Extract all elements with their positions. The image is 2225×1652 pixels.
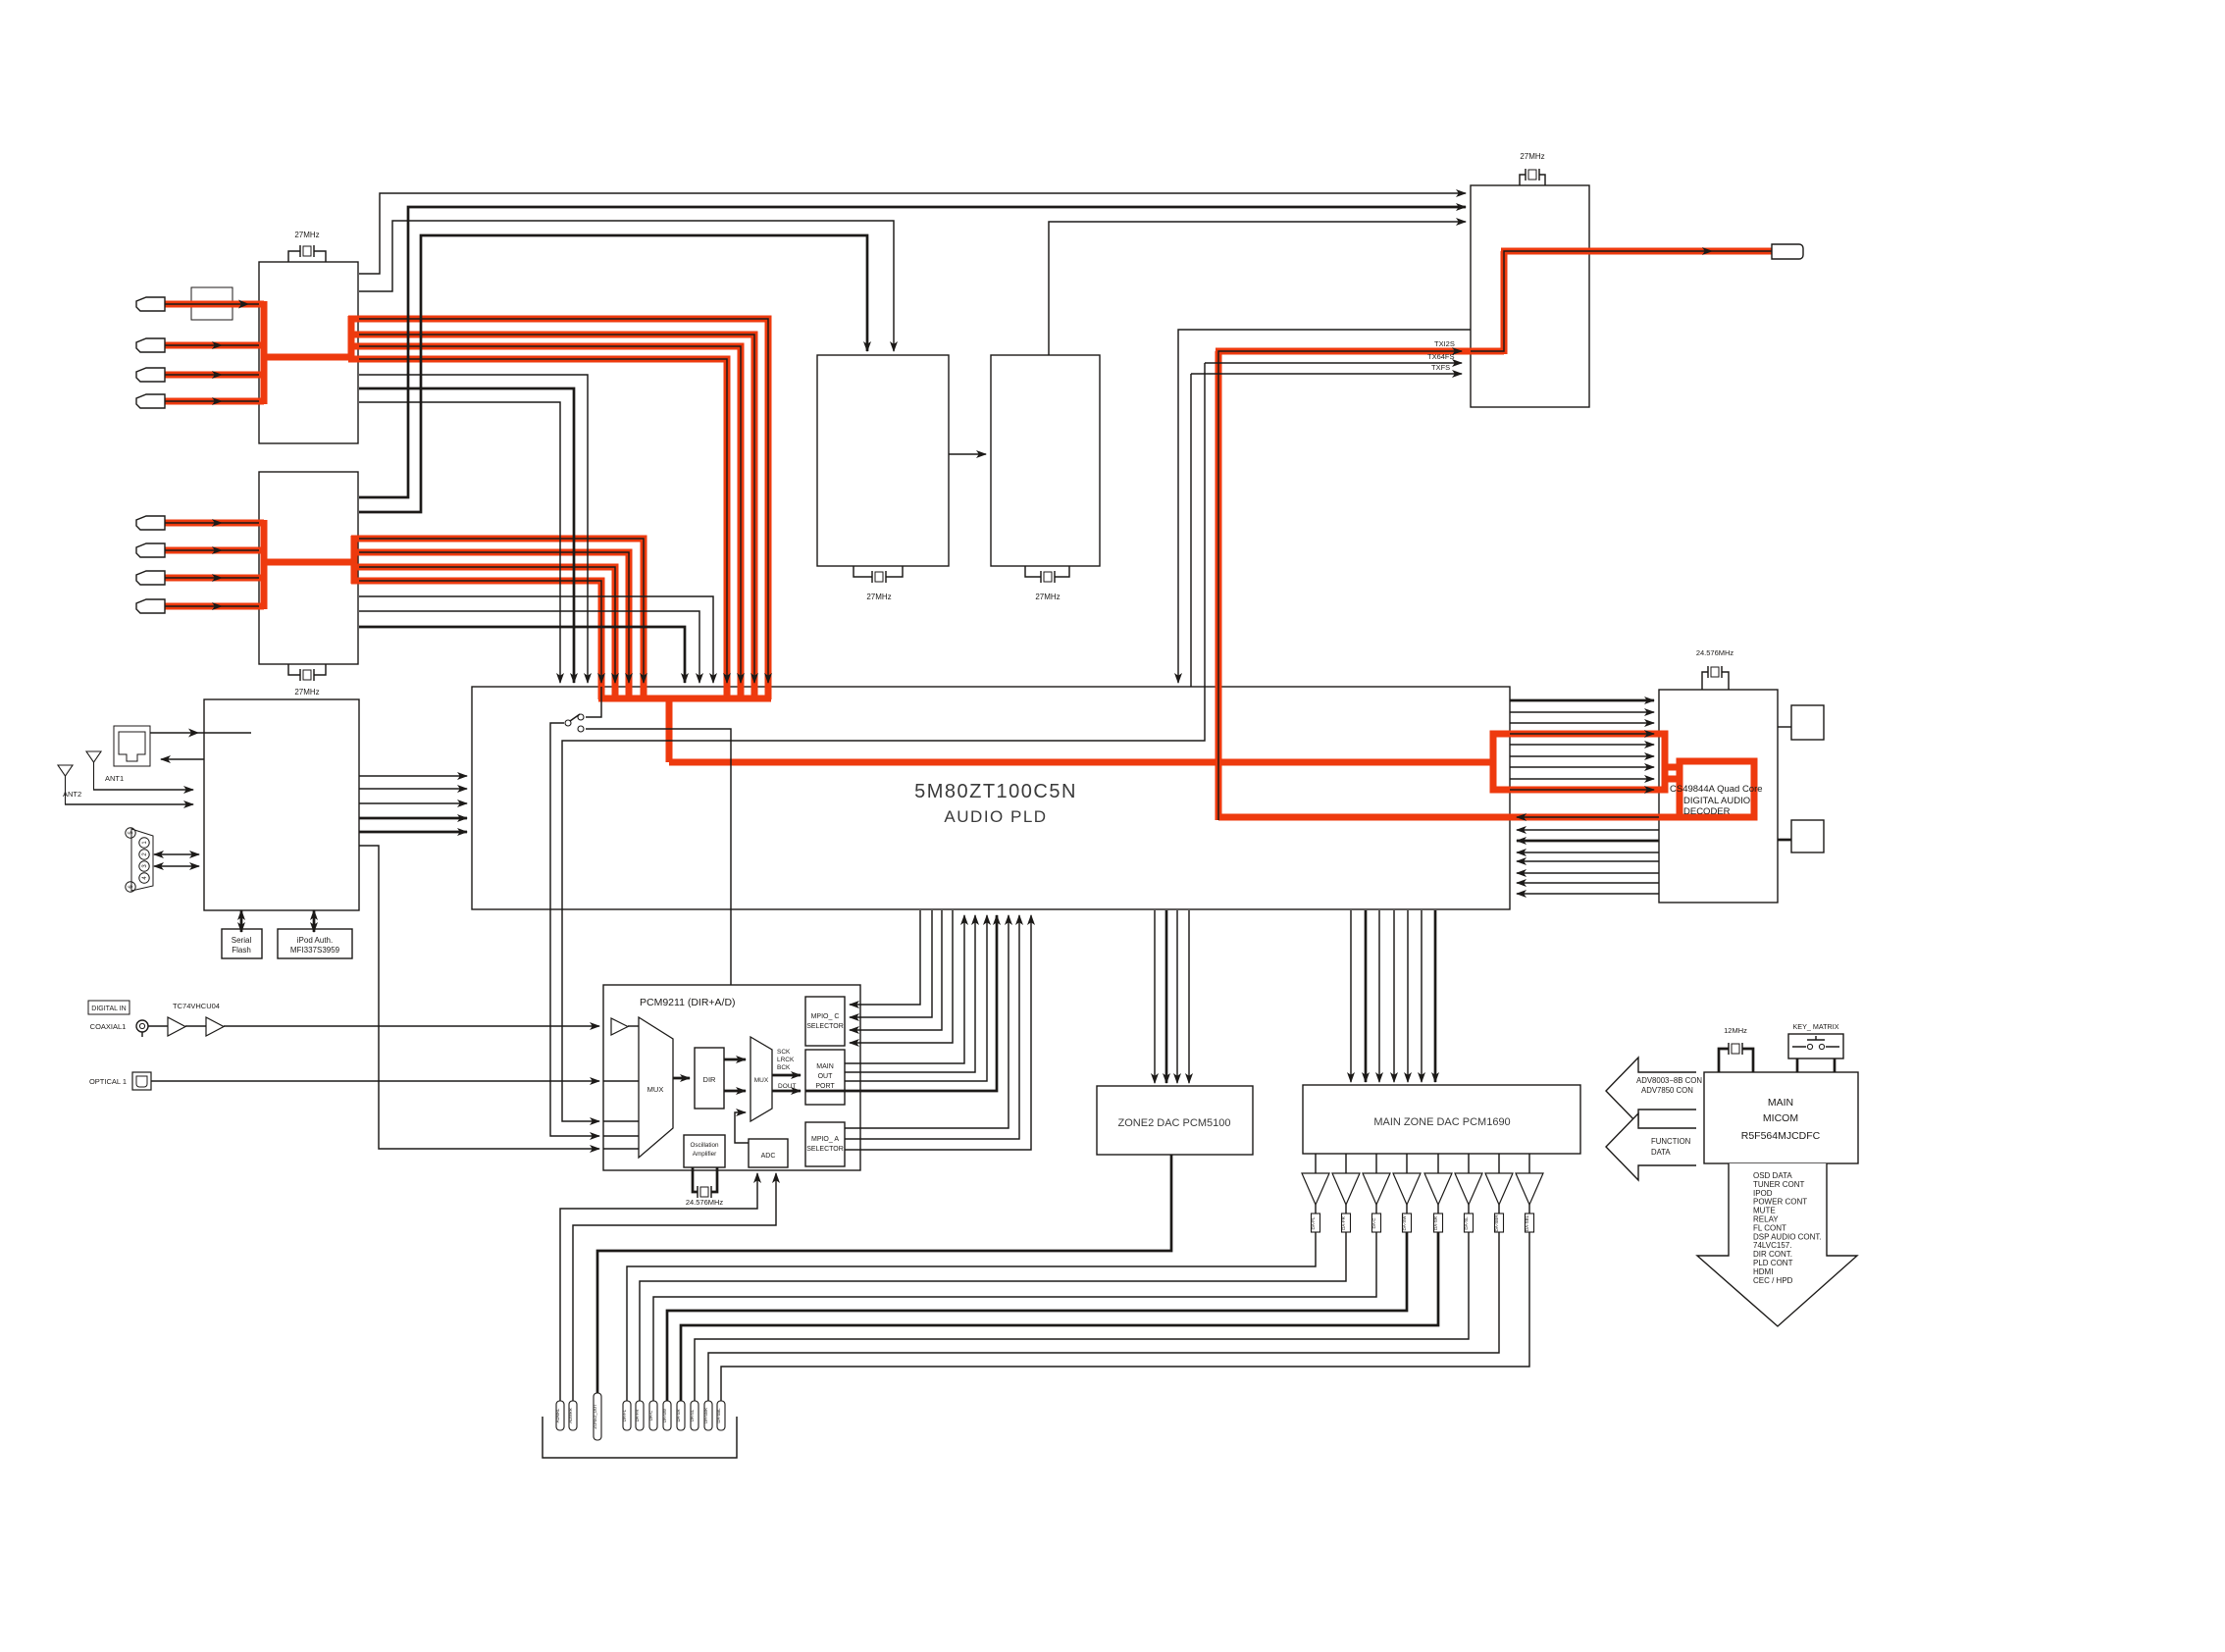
wire: PLD to DSP data 7 [1510, 766, 1654, 768]
wire: TX output to HDMI out connector [1712, 250, 1772, 252]
wire: DA-SBL to output connector [721, 1232, 1529, 1401]
wire: DA-SBR to output connector [708, 1232, 1499, 1401]
wire: RX1 exit C to video block U4 [359, 221, 894, 351]
MAIN OUT PORT sub-block [805, 1050, 845, 1105]
svg-text:DIR: DIR [703, 1075, 717, 1084]
red highlight: TXI2S line into HDMI TX [1216, 348, 1504, 355]
wire: J11 pin3 to module (bidir) [154, 865, 199, 867]
wire: op-amp A7 to resistor [1498, 1205, 1500, 1213]
svg-text:27MHz: 27MHz [294, 688, 319, 697]
svg-text:MAIN: MAIN [1768, 1097, 1793, 1109]
red highlight: RX1 bundle fan vertical [348, 316, 355, 360]
output connector pin DA-SBL [716, 1401, 725, 1430]
crystal X7 24.576MHz for PCM9211 [686, 1167, 724, 1207]
wire: DOUT to PLD (thick) [805, 915, 997, 1091]
connector J11 pin 1 [139, 838, 149, 848]
svg-text:DA-C: DA-C [648, 1411, 653, 1420]
wire: PLD I2S tap down to switch [586, 687, 601, 717]
audio PLD U6 5M80ZT100C5N [472, 687, 1510, 909]
svg-text:TX64FS: TX64FS [1427, 352, 1455, 361]
wire: DA-SW to output connector [667, 1232, 1407, 1401]
red highlight: RX1 I2S line 3 to PLD [348, 346, 741, 699]
wire: RX2 I2S black core y=549 [359, 539, 644, 683]
MAIN MICOM U14 R5F564MJCDFC [1704, 1072, 1858, 1163]
wire: TXFS riser from PLD [1190, 374, 1192, 687]
svg-text:DA-FL: DA-FL [1311, 1216, 1316, 1229]
wire: MPIO_A 3 to PLD [845, 915, 1031, 1150]
svg-text:TUNER CONT: TUNER CONT [1753, 1180, 1805, 1189]
output connector pin ADMRL [555, 1401, 564, 1430]
wire: HDMI in 8 to RX2 [165, 605, 259, 607]
input MUX trapezoid [639, 1017, 673, 1158]
wire: RX1 I2S black core y=325 [359, 319, 768, 683]
wire: PLD to MPIO_C 4 [850, 910, 953, 1043]
wire: TX64FS into TX [1205, 362, 1462, 364]
wire: op-amp A4 to resistor [1406, 1205, 1408, 1213]
svg-text:DA-SBR: DA-SBR [1494, 1214, 1499, 1232]
wire: ADC to MUX2 [735, 1112, 749, 1143]
optical connector J13 [132, 1072, 151, 1090]
wire: input3 to MUX [603, 1120, 639, 1122]
svg-text:DIR CONT.: DIR CONT. [1753, 1250, 1792, 1259]
resistor R7 DA-SBR [1494, 1213, 1504, 1232]
wire: switch lower contact to PCM9211 top [586, 729, 731, 985]
wire: DA-SL to output connector [695, 1232, 1469, 1401]
wire: MAIN OUT PORT 2 to PLD [845, 915, 975, 1072]
wire: MAIN DAC output 1 [1315, 1154, 1317, 1173]
crystal X1 27MHz for RX1 [288, 231, 326, 262]
network/iPod module U7 [204, 699, 359, 910]
red highlight: RX1 I2S line 1 to PLD [348, 319, 768, 699]
output connector pin DA-SR [676, 1401, 685, 1430]
label list of MICOM controls [1753, 1171, 1822, 1285]
wire: DSP to side box 2 (thick) [1778, 839, 1791, 842]
svg-text:Amplifier: Amplifier [693, 1151, 717, 1158]
block arrow to ADV8003-8B CON / ADV7850 CON [1606, 1058, 1696, 1124]
svg-text:FL CONT: FL CONT [1753, 1223, 1786, 1232]
resistor R2 DA-FR [1341, 1213, 1351, 1232]
wire: TXI2S black core PLD to TX [1218, 351, 1462, 820]
wire: RX2 output 2 to PLD [359, 611, 699, 683]
wire: DSP to PLD return 6 [1517, 872, 1659, 874]
wire: op-amp A3 to resistor [1375, 1205, 1377, 1213]
wire: PLD to ZONE2 DAC 3 [1176, 910, 1178, 1083]
wire: module to Serial Flash (bidir) [240, 910, 243, 932]
wire: PLD to MAIN DAC 4 [1393, 910, 1395, 1082]
Serial Flash U8 [222, 929, 262, 958]
svg-text:12MHz: 12MHz [1724, 1026, 1747, 1035]
svg-text:ADMRR: ADMRR [568, 1408, 573, 1422]
wire: PLD to DSP data 9 [1510, 789, 1654, 791]
wire: MUX to DIR [673, 1077, 690, 1080]
wire: MAIN DAC output 2 [1345, 1154, 1347, 1173]
red highlight: bridge nubs into DSP loop [1663, 764, 1680, 771]
output connector pin DA-SBR [703, 1401, 712, 1430]
red highlight: RX2 feed to output bundle [261, 559, 354, 566]
output connector pin DA-FR [635, 1401, 644, 1430]
wire: module to PLD y=804 [359, 788, 467, 790]
MPIO_A selector sub-block [805, 1122, 845, 1166]
svg-text:DA-FL: DA-FL [622, 1409, 627, 1421]
wire: module to iPod Auth (bidir) [313, 910, 316, 932]
ADC sub-block [749, 1139, 788, 1167]
wire: module SPDIF down to PCM9211 [359, 846, 599, 1149]
red highlight: PLD internal bus joining bundles [598, 696, 771, 702]
output MUX2 trapezoid [750, 1037, 772, 1121]
op-amp buffer A2 [1332, 1173, 1360, 1205]
HDMI input connector 6 [136, 543, 165, 557]
svg-text:27MHz: 27MHz [294, 231, 319, 239]
red highlight: RX2 input trunk vertical [261, 520, 268, 609]
svg-text:MAIN: MAIN [816, 1063, 834, 1070]
svg-text:AUDIO PLD: AUDIO PLD [944, 807, 1047, 826]
wire: key matrix leg 2 [1834, 1058, 1837, 1072]
HDMI input connector 7 [136, 571, 165, 585]
red highlight: HDMI input 4 wire [165, 398, 264, 405]
output connector pin DA-C [648, 1401, 657, 1430]
key matrix switch symbol [1792, 1036, 1839, 1050]
wire: MAIN OUT PORT 3 to PLD [845, 915, 987, 1081]
svg-text:PORT: PORT [815, 1083, 835, 1090]
op-amp buffer A7 [1485, 1173, 1513, 1205]
svg-text:MUTE: MUTE [1753, 1207, 1776, 1215]
coaxial connector J12 [136, 1020, 148, 1037]
svg-text:27MHz: 27MHz [1035, 593, 1060, 601]
svg-text:5M80ZT100C5N: 5M80ZT100C5N [914, 781, 1077, 802]
wire: MPIO_A 2 to PLD [845, 915, 1019, 1139]
svg-text:TXFS: TXFS [1431, 363, 1450, 372]
wire: HDMI in 1 to RX1 through filter [165, 303, 259, 305]
wire: PLD to ZONE2 DAC 1 [1154, 910, 1156, 1083]
svg-text:MPIO_ A: MPIO_ A [811, 1136, 839, 1143]
op-amp buffer A8 [1516, 1173, 1543, 1205]
wire: MAIN DAC output 4 [1406, 1154, 1408, 1173]
red highlight: HDMI input 8 wire [165, 603, 264, 610]
red highlight: HDMI input 5 wire to RX2 trunk [165, 520, 264, 527]
svg-text:LRCK: LRCK [777, 1057, 795, 1063]
HDMI input connector 5 [136, 516, 165, 530]
svg-text:DA-C: DA-C [1371, 1217, 1376, 1229]
MPIO_C selector sub-block [805, 997, 845, 1046]
svg-text:KEY_ MATRIX: KEY_ MATRIX [1793, 1022, 1839, 1031]
resistor R1 DA-FL [1311, 1213, 1320, 1232]
MAIN ZONE DAC U13 PCM1690 [1303, 1085, 1580, 1154]
wire: module to PLD thick y=834 [359, 817, 467, 820]
connector J11 pin 4 [139, 873, 149, 883]
wire: video U4 to U5 [949, 453, 986, 455]
wire: module to PLD y=819 [359, 802, 467, 804]
wire: video block U5 output up to HDMI TX [1049, 222, 1466, 355]
svg-text:MUX: MUX [647, 1085, 664, 1094]
connector group bracket [543, 1417, 737, 1458]
output connector pin DA-SW [662, 1401, 671, 1430]
svg-text:ZONE2_OUT: ZONE2_OUT [593, 1404, 597, 1429]
red highlight: TX internal vertical [1501, 251, 1508, 354]
svg-text:DOUT: DOUT [778, 1083, 796, 1090]
wire: PLD to MPIO_C 1 [850, 910, 920, 1005]
resistor R4 DA-SW [1402, 1213, 1412, 1232]
red highlight: loop around PLD-to-DSP I2S arrows [1493, 734, 1665, 790]
svg-text:RELAY: RELAY [1753, 1215, 1779, 1224]
wire: RX1 output 3 to PLD [359, 402, 560, 683]
wire: RX2 exit D to video block U4 (thick) [359, 235, 867, 512]
video processor block U5 [991, 355, 1100, 566]
wire: DSP to PLD return 2 [1517, 829, 1659, 831]
crystal X2 27MHz for RX2 [288, 664, 326, 697]
output connector pin DA-FL [622, 1401, 631, 1430]
wire: op-amp A6 to resistor [1468, 1205, 1470, 1213]
wire: HDMI TX control down to PLD [1178, 330, 1471, 683]
svg-text:Serial: Serial [232, 936, 252, 945]
wire: inverter to MUX [628, 1025, 639, 1027]
output connector pin ZONE2_OUT [593, 1393, 601, 1440]
svg-text:DA-SBL: DA-SBL [716, 1408, 721, 1423]
inverter gate 2 [206, 1017, 224, 1036]
wire: PLD to MAIN DAC 7 [1434, 910, 1437, 1082]
big down arrow from MICOM [1697, 1163, 1857, 1326]
PCM9211 internal inverter gate [611, 1018, 628, 1035]
svg-text:COAXIAL1: COAXIAL1 [90, 1022, 127, 1031]
svg-text:DA-FR: DA-FR [1341, 1215, 1346, 1229]
svg-text:DIGITAL AUDIO: DIGITAL AUDIO [1683, 796, 1750, 806]
HDMI receiver U2 (bottom) [259, 472, 358, 664]
svg-text:ANT2: ANT2 [63, 790, 81, 799]
svg-text:ADV7850 CON: ADV7850 CON [1641, 1086, 1693, 1095]
output connector pin DA-SL [690, 1401, 699, 1430]
wire: module to PLD y=791 [359, 775, 467, 777]
wire: DA-FL to output connector [627, 1232, 1316, 1401]
wire: RX1 output 2 to PLD (thick) [359, 388, 574, 683]
svg-text:ADMRL: ADMRL [555, 1408, 560, 1422]
svg-text:ADC: ADC [761, 1153, 776, 1160]
svg-text:OPTICAL 1: OPTICAL 1 [89, 1077, 127, 1086]
wire: PLD to DSP data 6 [1510, 755, 1654, 757]
svg-text:DA-SR: DA-SR [676, 1409, 681, 1421]
DSP side memory box 2 [1791, 820, 1824, 852]
wire: J11 pin2 to module (bidir) [154, 853, 199, 855]
svg-text:DECODER: DECODER [1683, 806, 1731, 817]
wire: op-amp A2 to resistor [1345, 1205, 1347, 1213]
wire: PLD to MAIN DAC 3 [1378, 910, 1380, 1082]
svg-text:DA-SBL: DA-SBL [1525, 1214, 1529, 1231]
svg-text:DIGITAL IN: DIGITAL IN [91, 1006, 126, 1012]
wire: PLD to MAIN DAC 2 [1365, 910, 1368, 1082]
wire: RJ45 to module [150, 732, 251, 734]
connector J11 pin 3 [139, 861, 149, 871]
video processor block U4 (ADV8003) [817, 355, 949, 566]
wire: inverter1 to inverter2 [185, 1025, 206, 1027]
wire: PLD to DSP data 2 [1510, 711, 1654, 713]
red highlight: RX2 I2S line 3 to PLD [351, 567, 615, 699]
red highlight: RX1 I2S line 2 to PLD [348, 335, 754, 699]
KEY_MATRIX connector J20 [1788, 1034, 1843, 1058]
wire: MPIO_A 1 to PLD [845, 915, 1009, 1128]
RJ45 ethernet connector J10 [114, 726, 150, 766]
svg-text:DSP AUDIO CONT.: DSP AUDIO CONT. [1753, 1232, 1822, 1241]
wire: PLD to DSP data 3 [1510, 722, 1654, 724]
wire: MAIN DAC output 8 [1528, 1154, 1530, 1173]
wire: RX2 I2S black core y=592 [359, 581, 601, 683]
6-pin connector J11 [131, 829, 153, 891]
wire: TXFS into TX [1191, 373, 1462, 375]
wire: RX1 upper exit A to HDMI TX [359, 193, 1466, 274]
arrowhead into module [188, 729, 199, 738]
wire: coax digital into PCM9211 [224, 1025, 599, 1027]
svg-text:DA-SW: DA-SW [662, 1409, 667, 1422]
PCM9211 U11 (DIR+A/D) [603, 985, 860, 1170]
svg-text:MFI337S3959: MFI337S3959 [290, 946, 340, 955]
filter box on HDMI input 1 wire [191, 287, 233, 320]
wire: PLD to DSP data 8 [1510, 778, 1654, 780]
wire: RX2 upper exit B to HDMI TX (thick) [359, 207, 1466, 497]
wire: DSP to PLD return 1 [1517, 816, 1659, 818]
svg-text:DA-SBR: DA-SBR [703, 1408, 708, 1423]
wire: op-amp A8 to resistor [1528, 1205, 1530, 1213]
svg-text:SELECTOR: SELECTOR [806, 1146, 844, 1153]
wire: ANT2 to module [65, 803, 193, 805]
block arrow FUNCTION DATA [1606, 1113, 1696, 1180]
inverter gate 1 [168, 1017, 185, 1036]
svg-text:Oscillation: Oscillation [690, 1142, 719, 1149]
red highlight: DSP return line to PLD [1218, 814, 1756, 821]
wire: TX output black core with arrow [1471, 251, 1712, 351]
DIR sub-block [695, 1048, 724, 1109]
svg-text:DA-FR: DA-FR [635, 1410, 640, 1422]
wire: PLD to ZONE2 DAC 2 [1165, 910, 1168, 1083]
wire: RX2 output 3 to PLD (thick) [359, 627, 685, 683]
wire: PLD to MPIO_C 3 [850, 910, 942, 1030]
resistor R3 DA-C [1371, 1213, 1381, 1232]
HDMI receiver U1 (top) [259, 262, 358, 443]
wire: analog input R to ADC [573, 1173, 776, 1401]
op-amp buffer A4 [1393, 1173, 1421, 1205]
red highlight: HDMI input 2 wire [165, 342, 264, 349]
wire: HDMI in 6 to RX2 [165, 549, 259, 551]
wire: DSP to side box 1 [1778, 726, 1791, 728]
wire: op-amp A1 to resistor [1315, 1205, 1317, 1213]
svg-text:DA-SL: DA-SL [690, 1409, 695, 1421]
wire: analog input L to ADC [560, 1173, 757, 1401]
wire: MAIN DAC output 7 [1498, 1154, 1500, 1173]
HDMI input connector 4 [136, 394, 165, 408]
red highlight: PLD internal vertical to DSP feed [666, 698, 673, 762]
red highlight: HDMI input 7 wire [165, 575, 264, 582]
wire: ZONE2 DAC output to connector [597, 1155, 1171, 1393]
wire: PLD to MAIN DAC 1 [1350, 910, 1352, 1082]
wire: DA-FR to output connector [640, 1232, 1346, 1401]
svg-text:27MHz: 27MHz [866, 593, 891, 601]
ZONE2 DAC U12 PCM5100 [1097, 1086, 1253, 1155]
HDMI input connector 1 [136, 297, 165, 311]
svg-text:SELECTOR: SELECTOR [806, 1023, 844, 1030]
svg-text:74LVC157.: 74LVC157. [1753, 1241, 1791, 1250]
wire: DSP to PLD return 3 [1517, 840, 1659, 843]
wire: TX64FS riser and PLD internal clock run [562, 363, 1205, 1121]
wire: HDMI in 4 to RX1 [165, 400, 259, 402]
wire: PLD to MAIN DAC 5 [1407, 910, 1409, 1082]
svg-text:R5F564MJCDFC: R5F564MJCDFC [1741, 1130, 1821, 1142]
wire: PLD to ZONE2 DAC 4 [1188, 910, 1190, 1083]
red highlight: HDMI input 3 wire [165, 372, 264, 379]
red highlight: PLD to DSP feed line [669, 759, 1493, 766]
svg-text:BCK: BCK [777, 1064, 791, 1071]
iPod Auth U9 MFI337S3959 [278, 929, 352, 958]
wire: DA-SR to output connector [681, 1232, 1438, 1401]
svg-text:MAIN ZONE DAC PCM1690: MAIN ZONE DAC PCM1690 [1373, 1116, 1510, 1128]
svg-text:FUNCTION: FUNCTION [1651, 1137, 1690, 1146]
red highlight: PLD internal riser to TXI2S [1216, 351, 1222, 820]
red highlight: loop inside DSP input [1680, 761, 1754, 817]
DSP U10 CS49844A [1659, 690, 1778, 903]
Oscillation Amplifier sub-block [684, 1135, 725, 1167]
wire: PLD to MPIO_C 2 [850, 910, 932, 1017]
wire: op-amp A5 to resistor [1437, 1205, 1439, 1213]
wire: RX2 I2S black core y=563 [359, 552, 629, 683]
svg-text:IPOD: IPOD [1753, 1189, 1773, 1198]
wire: HDMI in 3 to RX1 [165, 374, 259, 376]
svg-text:ANT1: ANT1 [105, 774, 124, 783]
wire: PLD to MAIN DAC 6 [1421, 910, 1423, 1082]
HDMI output connector J9 [1772, 244, 1803, 259]
wire: key matrix leg 1 [1796, 1058, 1799, 1072]
svg-text:OSD DATA: OSD DATA [1753, 1171, 1792, 1180]
DSP side memory box 1 [1791, 705, 1824, 740]
wire: DSP to PLD return 7 [1517, 882, 1659, 884]
wire: PLD to DSP data 5 [1510, 744, 1654, 746]
connector J11 pin 2 [139, 850, 149, 859]
op-amp buffer A1 [1302, 1173, 1329, 1205]
svg-text:POWER CONT: POWER CONT [1753, 1198, 1807, 1207]
svg-text:MUX: MUX [754, 1077, 769, 1084]
wire: optical input to MUX [603, 1080, 639, 1082]
wire: ANT1 to module [93, 789, 193, 791]
svg-text:SCK: SCK [777, 1049, 791, 1056]
wire: optical into PCM9211 [151, 1080, 599, 1082]
HDMI input connector 2 [136, 338, 165, 352]
svg-text:DATA: DATA [1651, 1148, 1671, 1157]
svg-text:27MHz: 27MHz [1520, 152, 1544, 161]
svg-text:TC74VHCU04: TC74VHCU04 [173, 1002, 220, 1010]
svg-text:24.576MHz: 24.576MHz [1696, 648, 1734, 657]
svg-text:DA-SR: DA-SR [1433, 1215, 1438, 1230]
svg-text:PLD CONT: PLD CONT [1753, 1259, 1793, 1267]
svg-text:OUT: OUT [818, 1073, 834, 1080]
wire: DSP to PLD return 4 [1517, 852, 1659, 853]
wire: RX2 I2S black core y=578 [359, 567, 615, 683]
crystal X3 27MHz for TX [1520, 152, 1545, 185]
wire: module to RJ45 return [161, 758, 204, 760]
wire: RX1 I2S black core y=353 [359, 346, 741, 683]
red highlight: HDMI input 6 wire [165, 547, 264, 554]
crystal X4 27MHz for video U4 [854, 566, 903, 601]
wire: MAIN DAC output 6 [1468, 1154, 1470, 1173]
svg-text:CEC / HPD: CEC / HPD [1753, 1276, 1793, 1285]
red highlight: HDMI TX output line to connector [1501, 248, 1774, 255]
wire: DIR out 1 to MUX2 [724, 1058, 746, 1061]
op-amp buffer A5 [1424, 1173, 1452, 1205]
svg-text:DA-SW: DA-SW [1402, 1215, 1407, 1231]
svg-text:HDMI: HDMI [1753, 1267, 1773, 1276]
svg-text:CS49844A Quad Core: CS49844A Quad Core [1670, 784, 1763, 795]
svg-text:ADV8003−8B CON: ADV8003−8B CON [1636, 1076, 1702, 1085]
wire: HDMI in 2 to RX1 [165, 344, 259, 346]
wire: MUX2 clocks to MAIN OUT PORT [772, 1074, 801, 1077]
svg-text:MICOM: MICOM [1763, 1112, 1798, 1124]
wire: DOUT to MAIN OUT PORT [772, 1090, 801, 1093]
wire: RX1 I2S black core y=366 [359, 359, 727, 683]
wire: switch common down to PCM9211 [550, 723, 599, 1136]
red highlight: RX2 I2S line 4 to PLD [351, 581, 601, 699]
